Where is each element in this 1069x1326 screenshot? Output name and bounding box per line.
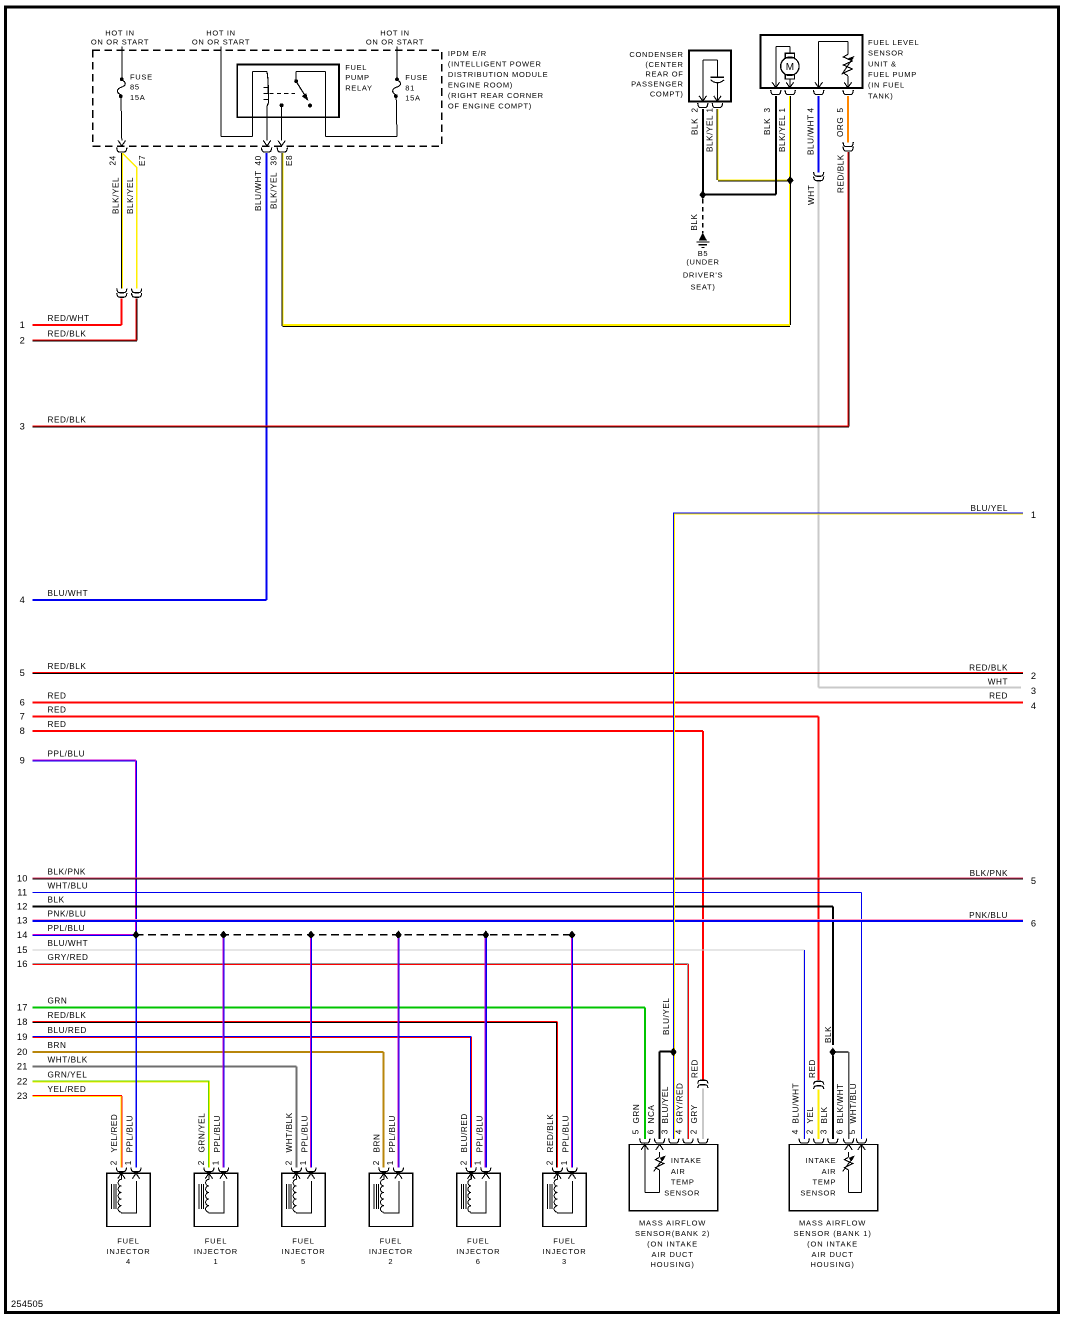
svg-text:24: 24	[108, 155, 117, 165]
svg-text:8: 8	[20, 726, 25, 736]
svg-text:1: 1	[560, 1160, 569, 1165]
svg-text:HOT IN: HOT IN	[380, 28, 409, 37]
inline connector ORG-RED/BLK	[843, 142, 853, 146]
svg-text:15A: 15A	[405, 94, 420, 103]
svg-text:2: 2	[690, 1129, 699, 1134]
junction BLU/YEL NCA node	[670, 1048, 676, 1056]
wire 7 RED	[20, 706, 819, 1081]
svg-text:BLU/WHT: BLU/WHT	[254, 170, 263, 211]
label MASS AIRFLOW SENSOR bank 2	[635, 1219, 710, 1270]
maf bank 2 pin 4 connector	[683, 1139, 693, 1143]
svg-text:PPL/BLU: PPL/BLU	[48, 924, 86, 933]
svg-text:TANK): TANK)	[868, 91, 893, 100]
fuel injector 4 pin 2 connector	[116, 1167, 126, 1171]
svg-text:1: 1	[386, 1160, 395, 1165]
junction ground node	[700, 191, 706, 199]
wire 14 PPL/BLU to dashed bus	[17, 924, 133, 940]
intake air temp thermistor bank 1	[843, 1145, 862, 1193]
svg-text:FUEL: FUEL	[205, 1236, 228, 1245]
wire RED/BLK down to wire 3 bend	[847, 152, 849, 426]
svg-text:NCA: NCA	[647, 1105, 656, 1124]
svg-text:BLK/YEL: BLK/YEL	[778, 115, 787, 152]
svg-text:FUEL: FUEL	[117, 1236, 140, 1245]
svg-text:INJECTOR: INJECTOR	[456, 1247, 500, 1256]
svg-text:1: 1	[20, 320, 25, 330]
wire BLK/YEL long horizontal to IPDM pin 39	[282, 153, 790, 327]
svg-text:CONDENSER: CONDENSER	[629, 50, 683, 59]
fuel injector 5 pin 1 connector	[306, 1167, 316, 1171]
fuel injector 3 box	[543, 1173, 587, 1226]
svg-text:UNIT &: UNIT &	[868, 59, 897, 68]
svg-text:16: 16	[17, 959, 28, 969]
junction bus node 2	[220, 931, 226, 939]
condenser internal wire pin 2	[699, 60, 717, 101]
wire 3 RED/BLK	[20, 415, 849, 431]
svg-text:RED/BLK: RED/BLK	[48, 662, 87, 671]
wire injector pin1 PPL/BLU vertical	[571, 938, 573, 1168]
svg-text:BLK: BLK	[820, 1106, 829, 1123]
svg-text:GRN: GRN	[632, 1104, 641, 1124]
wire 18 RED/BLK to injector 3	[17, 1011, 558, 1167]
junction bus node 6	[569, 931, 575, 939]
fuel injector 6 box	[457, 1173, 501, 1226]
svg-text:BLK/PNK: BLK/PNK	[48, 867, 86, 876]
svg-text:RELAY: RELAY	[345, 83, 373, 92]
svg-text:2: 2	[20, 336, 25, 346]
svg-text:GRY/RED: GRY/RED	[48, 953, 89, 962]
svg-text:RED: RED	[48, 720, 67, 729]
wire injector pin1 PPL/BLU vertical	[222, 938, 224, 1168]
fuel injector 5 box	[282, 1173, 326, 1226]
svg-text:1: 1	[474, 1160, 483, 1165]
wire BLK dashed to ground	[702, 199, 704, 233]
svg-text:RED: RED	[691, 1059, 700, 1078]
wire 9 PPL/BLU	[20, 750, 137, 935]
wire 13 PNK/BLU full width	[17, 909, 1036, 928]
svg-text:SENSOR: SENSOR	[664, 1188, 700, 1197]
svg-text:6: 6	[1031, 919, 1036, 929]
svg-text:PPL/BLU: PPL/BLU	[301, 1115, 310, 1153]
IPDM E/R text block	[448, 49, 548, 110]
svg-text:GRN/YEL: GRN/YEL	[198, 1113, 207, 1153]
wire injector pin1 PPL/BLU vertical	[397, 938, 399, 1168]
svg-text:HOT IN: HOT IN	[206, 28, 235, 37]
svg-text:13: 13	[17, 915, 28, 925]
wire 20 BRN to injector 2	[17, 1041, 384, 1168]
maf bank 2 pin 2 connector	[698, 1139, 708, 1143]
svg-text:4: 4	[791, 1129, 800, 1134]
wire 8 RED	[20, 720, 703, 1080]
svg-text:COMPT): COMPT)	[650, 90, 684, 99]
wire pump pin5 ORG down to connector	[847, 96, 849, 143]
svg-text:RED/BLK: RED/BLK	[546, 1114, 555, 1153]
label HOT IN ON OR START (relay)	[192, 28, 250, 46]
svg-text:B5: B5	[698, 249, 709, 258]
fuel pump motor symbol	[772, 47, 799, 88]
svg-text:5: 5	[301, 1257, 306, 1266]
fuel injector 6 pin 1 arrow	[482, 1173, 489, 1178]
svg-text:2: 2	[197, 1160, 206, 1165]
svg-text:10: 10	[17, 873, 28, 883]
svg-text:GRN: GRN	[48, 997, 68, 1006]
wire 22 GRN/YEL to injector 1	[17, 1070, 210, 1167]
wire 17 GRN	[17, 997, 645, 1139]
svg-text:RED/BLK: RED/BLK	[969, 664, 1008, 673]
inline connector RED-YEL bank1	[814, 1081, 824, 1084]
svg-text:6: 6	[835, 1129, 844, 1134]
svg-text:E8: E8	[285, 155, 294, 166]
svg-text:5: 5	[1031, 876, 1036, 886]
condenser box	[689, 51, 731, 102]
fuel injector 4 coil	[112, 1179, 137, 1213]
svg-text:TEMP: TEMP	[671, 1178, 695, 1187]
svg-text:1: 1	[778, 107, 787, 112]
svg-text:BRN: BRN	[48, 1041, 67, 1050]
svg-text:2: 2	[690, 107, 699, 112]
svg-text:PPL/BLU: PPL/BLU	[475, 1115, 484, 1153]
fuel injector 2 pin 1 connector	[393, 1167, 403, 1171]
maf bank 2 pin 6 connector	[655, 1139, 665, 1143]
condenser pin 1 connector	[712, 103, 722, 107]
condenser pin 2 connector	[698, 103, 708, 107]
svg-text:1: 1	[213, 1257, 218, 1266]
pump pin 4 connector	[814, 90, 824, 94]
label MASS AIRFLOW SENSOR bank 1	[794, 1219, 872, 1270]
svg-text:MASS AIRFLOW: MASS AIRFLOW	[799, 1219, 866, 1228]
svg-text:BLK: BLK	[824, 1026, 833, 1043]
wire 6 RED full width	[20, 691, 1037, 711]
svg-text:3: 3	[1031, 686, 1036, 696]
svg-text:INJECTOR: INJECTOR	[281, 1247, 325, 1256]
label HOT IN ON OR START (fuse 81)	[366, 28, 424, 46]
svg-text:PPL/BLU: PPL/BLU	[126, 1115, 135, 1153]
wire pin E7 BLK/YEL diagonal and down	[123, 153, 137, 288]
svg-text:ON OR START: ON OR START	[91, 38, 149, 47]
svg-text:4: 4	[806, 107, 815, 112]
svg-text:14: 14	[17, 930, 28, 940]
svg-text:254505: 254505	[11, 1299, 43, 1309]
svg-text:15A: 15A	[130, 93, 145, 102]
svg-text:20: 20	[17, 1047, 28, 1057]
svg-text:MASS AIRFLOW: MASS AIRFLOW	[639, 1219, 706, 1228]
svg-text:BLK/PNK: BLK/PNK	[970, 869, 1008, 878]
fuel injector 3 pin 2 arrow	[554, 1173, 561, 1179]
svg-text:HOUSING): HOUSING)	[650, 1260, 694, 1269]
wire R1 BLU/YEL	[673, 504, 1036, 1139]
maf bank 1 pin 6 connector	[844, 1139, 854, 1143]
IPDM pin 40 connector	[262, 148, 272, 152]
wire pump pin3 BLK down and left to ground junction	[703, 96, 776, 195]
fuel injector 6 pin 2 connector	[466, 1167, 476, 1171]
svg-text:21: 21	[17, 1062, 28, 1072]
svg-text:GRY: GRY	[690, 1104, 699, 1123]
fuel injector 2 pin 1 arrow	[395, 1173, 402, 1178]
svg-text:E7: E7	[138, 155, 147, 166]
junction bus node 3	[308, 931, 314, 939]
svg-text:9: 9	[20, 756, 25, 766]
pump pin 1 connector	[785, 90, 795, 94]
svg-text:FUEL LEVEL: FUEL LEVEL	[868, 38, 919, 47]
junction bus node 5	[483, 931, 489, 939]
wire 4 BLU/WHT	[20, 589, 267, 605]
svg-text:1: 1	[299, 1160, 308, 1165]
fuel injector 5 coil	[287, 1179, 312, 1213]
svg-text:PNK/BLU: PNK/BLU	[48, 909, 87, 918]
svg-text:40: 40	[254, 155, 263, 165]
label FUEL INJECTOR 1	[194, 1236, 238, 1266]
inline connector C-E7	[132, 288, 142, 292]
svg-text:2: 2	[1031, 671, 1036, 681]
fuel injector 4 pin 2 arrow	[118, 1173, 125, 1179]
wire pin 24 BLK/YEL down	[120, 153, 122, 288]
svg-text:(IN FUEL: (IN FUEL	[868, 81, 905, 90]
svg-text:3: 3	[20, 421, 25, 431]
svg-text:2: 2	[110, 1160, 119, 1165]
svg-text:ON OR START: ON OR START	[192, 38, 250, 47]
wire 1 RED/WHT	[20, 314, 122, 330]
wire 21 WHT/BLK to injector 5	[17, 1056, 296, 1168]
intake air temp thermistor bank 2	[645, 1145, 666, 1193]
svg-text:SENSOR: SENSOR	[800, 1188, 836, 1197]
fuel injector 5 pin 1 arrow	[307, 1173, 314, 1178]
svg-text:SENSOR: SENSOR	[868, 49, 904, 58]
svg-text:BLK: BLK	[690, 213, 699, 230]
maf bank 1 internal arrows	[858, 1145, 865, 1150]
svg-text:BLK: BLK	[763, 118, 772, 135]
svg-text:RED/WHT: RED/WHT	[48, 314, 90, 323]
svg-text:BLU/YEL: BLU/YEL	[970, 504, 1008, 513]
maf bank 1 pin 4 connector	[799, 1139, 809, 1143]
svg-text:85: 85	[130, 83, 140, 92]
svg-text:2: 2	[460, 1160, 469, 1165]
svg-text:6: 6	[476, 1257, 481, 1266]
svg-text:3: 3	[763, 107, 772, 112]
svg-text:BLK/YEL: BLK/YEL	[112, 177, 121, 214]
svg-text:YEL: YEL	[806, 1106, 815, 1123]
svg-text:2: 2	[546, 1160, 555, 1165]
svg-text:22: 22	[17, 1076, 28, 1086]
svg-text:(RIGHT REAR CORNER: (RIGHT REAR CORNER	[448, 91, 544, 100]
inline connector BLU/WHT-WHT	[814, 172, 824, 176]
svg-text:7: 7	[20, 712, 25, 722]
fuel injector 4 box	[107, 1173, 151, 1226]
svg-text:WHT: WHT	[807, 185, 816, 205]
pump pin 3 connector	[771, 90, 781, 94]
svg-text:(ON INTAKE: (ON INTAKE	[647, 1239, 698, 1248]
fuel injector 3 coil	[548, 1179, 573, 1213]
svg-text:M: M	[786, 62, 794, 73]
svg-text:PASSENGER: PASSENGER	[631, 80, 683, 89]
svg-text:19: 19	[17, 1032, 28, 1042]
svg-text:17: 17	[17, 1003, 28, 1013]
junction bus node 4	[395, 931, 401, 939]
svg-text:DRIVER'S: DRIVER'S	[683, 270, 723, 279]
svg-text:ORG: ORG	[836, 117, 845, 137]
svg-text:3: 3	[661, 1129, 670, 1134]
svg-text:11: 11	[17, 887, 27, 897]
fuel injector 1 pin 2 connector	[204, 1167, 214, 1171]
fuel injector 6 pin 1 connector	[481, 1167, 491, 1171]
svg-text:FUEL: FUEL	[467, 1236, 490, 1245]
svg-text:FUEL: FUEL	[380, 1236, 403, 1245]
relay mechanical dashed link	[270, 92, 296, 94]
fuel injector 1 pin 1 arrow	[220, 1173, 227, 1178]
wire RED/WHT riser to wire 1	[121, 298, 123, 325]
wire BLK below junction bank1	[832, 1056, 834, 1139]
svg-text:BLU/YEL: BLU/YEL	[662, 997, 671, 1035]
mass airflow sensor bank 1 box	[789, 1145, 877, 1211]
junction BLK BLK/WHT node	[830, 1048, 836, 1056]
fuel injector 1 box	[194, 1173, 238, 1226]
svg-text:PPL/BLU: PPL/BLU	[388, 1115, 397, 1153]
relay feed wire from fuse 81	[296, 71, 397, 136]
svg-text:PPL/BLU: PPL/BLU	[562, 1115, 571, 1153]
svg-text:SEAT): SEAT)	[690, 282, 715, 291]
svg-text:(INTELLIGENT POWER: (INTELLIGENT POWER	[448, 60, 542, 69]
svg-text:REAR OF: REAR OF	[645, 70, 683, 79]
fuel injector 4 pin 1 arrow	[132, 1173, 139, 1178]
svg-text:18: 18	[17, 1017, 28, 1027]
svg-text:RED: RED	[808, 1059, 817, 1078]
fuel injector 2 pin 2 arrow	[380, 1173, 387, 1179]
svg-text:12: 12	[17, 901, 28, 911]
condenser text	[629, 50, 683, 99]
fuse 85 15A	[117, 47, 152, 146]
fuel level sensor variable resistor	[815, 42, 854, 88]
svg-text:39: 39	[270, 155, 279, 165]
svg-text:5: 5	[632, 1129, 641, 1134]
wire IPDM pin 40 BLU/WHT down to wire 4	[266, 153, 268, 600]
svg-text:6: 6	[646, 1129, 655, 1134]
svg-text:BLU/RED: BLU/RED	[48, 1026, 87, 1035]
wire 16 GRY/RED	[17, 953, 689, 1139]
svg-text:2: 2	[372, 1160, 381, 1165]
svg-text:RED/BLK: RED/BLK	[837, 154, 846, 193]
svg-text:(CENTER: (CENTER	[645, 60, 683, 69]
svg-text:FUEL: FUEL	[345, 63, 367, 72]
wire condenser pin2 BLK down to junction	[702, 109, 704, 193]
wire 11 WHT/BLU	[17, 881, 861, 1139]
inline connector RED-GRY bank2	[698, 1080, 708, 1083]
svg-text:(UNDER: (UNDER	[686, 258, 719, 267]
fuel injector 2 box	[369, 1173, 413, 1226]
svg-text:2: 2	[388, 1257, 393, 1266]
svg-text:RED: RED	[48, 706, 67, 715]
svg-text:INJECTOR: INJECTOR	[106, 1247, 150, 1256]
svg-text:IPDM E/R: IPDM E/R	[448, 49, 487, 58]
svg-text:BLU/YEL: BLU/YEL	[661, 1086, 670, 1124]
maf bank 2 internal arrows	[641, 1145, 648, 1150]
fuel injector 3 pin 1 connector	[567, 1167, 577, 1171]
maf bank 1 pin 5 connector	[856, 1139, 866, 1143]
svg-text:WHT/BLK: WHT/BLK	[48, 1056, 88, 1065]
svg-text:INJECTOR: INJECTOR	[194, 1247, 238, 1256]
svg-text:BLU/WHT: BLU/WHT	[806, 114, 815, 155]
fuel level sensor unit and fuel pump box	[761, 35, 863, 88]
svg-text:SENSOR (BANK 1): SENSOR (BANK 1)	[794, 1229, 872, 1238]
label FUEL INJECTOR 5	[281, 1236, 325, 1266]
fuel injector 2 coil	[374, 1179, 399, 1213]
svg-text:4: 4	[675, 1129, 684, 1134]
svg-text:OF ENGINE COMPT): OF ENGINE COMPT)	[448, 102, 532, 111]
svg-text:INTAKE: INTAKE	[805, 1156, 836, 1165]
svg-text:5: 5	[848, 1129, 857, 1134]
svg-text:BLK/YEL: BLK/YEL	[270, 172, 279, 209]
svg-text:RED/BLK: RED/BLK	[48, 415, 87, 424]
svg-text:YEL/RED: YEL/RED	[48, 1085, 87, 1094]
svg-text:INJECTOR: INJECTOR	[542, 1247, 586, 1256]
svg-text:DISTRIBUTION MODULE: DISTRIBUTION MODULE	[448, 70, 548, 79]
svg-text:BLK/WHT: BLK/WHT	[836, 1083, 845, 1123]
fuel injector 4 pin 1 connector	[131, 1167, 141, 1171]
relay feed wire from HOT IN 2	[221, 47, 267, 137]
condenser capacitor symbol	[711, 60, 725, 101]
svg-text:6: 6	[20, 697, 25, 707]
wire 19 BLU/RED to injector 6	[17, 1026, 472, 1168]
svg-text:INJECTOR: INJECTOR	[369, 1247, 413, 1256]
label FUEL INJECTOR 2	[369, 1236, 413, 1266]
fuse 81 15A	[393, 47, 428, 137]
svg-text:GRN/YEL: GRN/YEL	[48, 1070, 88, 1079]
dashed bus wire PPL/BLU distribution	[136, 934, 572, 936]
relay coil	[264, 71, 269, 140]
svg-text:BLU/RED: BLU/RED	[460, 1113, 469, 1152]
svg-text:BLU/WHT: BLU/WHT	[48, 939, 89, 948]
svg-text:PPL/BLU: PPL/BLU	[48, 750, 86, 759]
svg-text:23: 23	[17, 1091, 28, 1101]
svg-text:4: 4	[126, 1257, 131, 1266]
wire injector pin1 PPL/BLU vertical	[310, 938, 312, 1168]
wire 2 RED/BLK	[20, 330, 138, 346]
svg-text:PPL/BLU: PPL/BLU	[213, 1115, 222, 1153]
label FUEL INJECTOR 6	[456, 1236, 500, 1266]
wire injector4 pin1 PPL/BLU vertical	[135, 938, 137, 1168]
svg-text:15: 15	[17, 945, 28, 955]
wire RED/BLK riser to wire 2	[135, 298, 137, 340]
wire GRY bank2 pin2	[702, 1089, 704, 1139]
label FUEL INJECTOR 4	[106, 1236, 150, 1266]
svg-text:WHT/BLU: WHT/BLU	[48, 881, 89, 890]
svg-text:5: 5	[836, 107, 845, 112]
svg-text:FUEL PUMP: FUEL PUMP	[868, 70, 917, 79]
svg-text:AIR DUCT: AIR DUCT	[811, 1250, 853, 1259]
wire 23 YEL/RED to injector 4	[17, 1085, 122, 1168]
svg-text:4: 4	[20, 595, 25, 605]
wire condenser pin1 BLK/YEL down and right to junction	[717, 109, 790, 181]
fuel injector 5 pin 2 connector	[291, 1167, 301, 1171]
svg-text:1: 1	[124, 1160, 133, 1165]
fuel pump relay box	[237, 65, 339, 118]
svg-text:(ON INTAKE: (ON INTAKE	[807, 1239, 858, 1248]
svg-text:FUEL: FUEL	[292, 1236, 315, 1245]
svg-text:RED/BLK: RED/BLK	[48, 330, 87, 339]
wire NCA BLK bank2	[660, 1052, 671, 1139]
wire YEL bank1 pin2	[818, 1090, 820, 1139]
svg-text:2: 2	[285, 1160, 294, 1165]
junction bus node 1	[133, 931, 139, 939]
wire 15 BLU/WHT	[17, 939, 805, 1139]
svg-text:3: 3	[562, 1257, 567, 1266]
ground label B5 UNDER DRIVERS SEAT	[683, 249, 723, 291]
mass airflow sensor bank 2 box	[629, 1145, 717, 1211]
wire pump pin1 BLK/YEL down to junction and beyond	[789, 96, 791, 325]
maf bank 2 pin 5 connector	[640, 1139, 650, 1143]
svg-text:FUSE: FUSE	[130, 72, 153, 81]
svg-text:HOT IN: HOT IN	[105, 28, 134, 37]
svg-text:BLK: BLK	[48, 895, 65, 904]
inline connector C-24	[117, 288, 127, 292]
label FUEL PUMP RELAY	[345, 63, 373, 93]
